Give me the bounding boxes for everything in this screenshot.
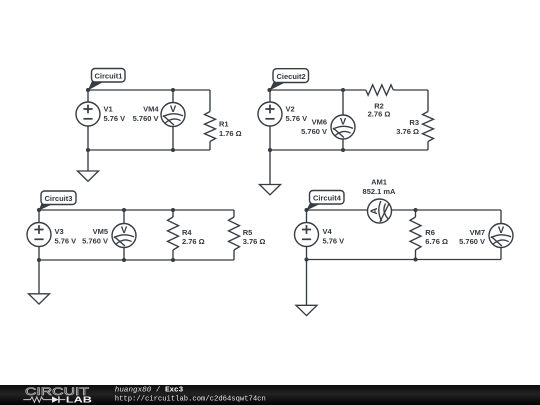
label V1 value	[104, 105, 126, 124]
wire: circuit2 top rail right	[393, 89, 428, 91]
wire: R4 bottom lead	[172, 250, 174, 260]
svg-text:2.76 Ω: 2.76 Ω	[368, 110, 391, 119]
svg-text:5.76 V: 5.76 V	[55, 236, 77, 245]
wire: VM6 bottom lead	[342, 140, 344, 151]
annotation callout Circuit3	[39, 191, 76, 211]
node: VM6 bottom junction	[341, 148, 345, 152]
wire: V3 bottom lead	[38, 247, 40, 261]
label AM1 value	[363, 177, 397, 196]
svg-text:5.76 V: 5.76 V	[104, 114, 126, 123]
node: VM6 top junction	[341, 88, 345, 92]
wire: circuit4 bottom rail	[307, 259, 502, 261]
wire: circuit2 bottom rail	[270, 149, 428, 151]
logo CIRCUIT wordmark	[25, 386, 89, 398]
wire: circuit3 ground stem	[38, 260, 40, 294]
resistor R6	[410, 217, 421, 250]
svg-text:3.76 Ω: 3.76 Ω	[243, 237, 266, 246]
wire: VM5 bottom lead	[123, 248, 125, 260]
wire: VM6 top lead	[342, 90, 344, 115]
svg-text:R6: R6	[425, 228, 435, 237]
label VM5 value	[82, 227, 108, 246]
footer bar	[0, 385, 540, 405]
svg-text:3.76 Ω: 3.76 Ω	[396, 127, 419, 136]
svg-text:Ciecuit2: Ciecuit2	[277, 72, 306, 81]
svg-text:5.76 V: 5.76 V	[323, 236, 345, 245]
ground: circuit2	[260, 185, 281, 195]
label R6 value	[425, 228, 448, 246]
label R4 value	[182, 228, 205, 246]
svg-text:5.760 V: 5.760 V	[301, 127, 327, 136]
wire: R6 bottom lead	[415, 250, 417, 260]
resistor R1	[205, 112, 216, 142]
svg-text:V1: V1	[104, 105, 113, 114]
svg-text:V4: V4	[323, 227, 333, 236]
wire: R3 top lead	[427, 90, 429, 112]
label VM4 value	[133, 105, 160, 124]
wire: R5 top lead	[233, 210, 235, 217]
annotation callout Circuit4	[306, 191, 344, 211]
label R2 value	[368, 101, 391, 118]
wire: V1 bottom lead	[87, 126, 89, 150]
svg-text:5.760 V: 5.760 V	[459, 237, 485, 246]
ground: circuit1	[78, 171, 99, 181]
wire: R5 bottom lead	[233, 250, 235, 260]
svg-text:Circuit1: Circuit1	[95, 72, 123, 81]
voltmeter VM4	[161, 103, 185, 127]
wire: circuit4 top rail right	[392, 209, 501, 211]
resistor R5	[229, 217, 240, 250]
wire: circuit2 ground stem	[269, 150, 271, 185]
wire: circuit1 ground stem	[87, 150, 89, 171]
node: R6 bottom junction	[413, 257, 417, 261]
svg-text:V: V	[498, 225, 505, 236]
wire: VM4 top lead	[172, 90, 174, 103]
svg-text:huangx80 / Exc3: huangx80 / Exc3	[115, 386, 184, 394]
node: V1 bottom junction	[86, 148, 90, 152]
ground: circuit3	[29, 294, 50, 304]
label V2 value	[286, 105, 308, 124]
svg-text:A: A	[369, 207, 380, 214]
wire: circuit3 bottom rail	[39, 259, 234, 261]
svg-text:V: V	[121, 225, 128, 236]
svg-text:LAB: LAB	[66, 396, 92, 405]
node: VM5 top junction	[122, 208, 126, 212]
node: VM4 bottom junction	[171, 148, 175, 152]
wire: R3 bottom lead	[427, 142, 429, 151]
svg-text:VM4: VM4	[143, 105, 159, 114]
wire: R1 top lead	[209, 90, 211, 112]
ground: circuit4	[296, 305, 317, 315]
svg-text:V3: V3	[55, 227, 64, 236]
wire: VM7 bottom lead	[500, 248, 502, 260]
svg-text:VM5: VM5	[93, 227, 108, 236]
svg-text:Circuit3: Circuit3	[45, 194, 73, 203]
wire: V2 top lead	[269, 90, 271, 102]
footer url	[115, 396, 266, 404]
svg-text:http://circuitlab.com/c2d64sqw: http://circuitlab.com/c2d64sqwt74cn	[115, 396, 266, 404]
wire: R1 bottom lead	[209, 142, 211, 151]
svg-text:AM1: AM1	[371, 177, 387, 186]
voltmeter VM5	[112, 224, 136, 248]
label R1 value	[219, 120, 242, 138]
wire: circuit3 top rail	[39, 209, 234, 211]
logo LAB wordmark	[66, 396, 92, 405]
svg-text:V2: V2	[286, 105, 295, 114]
logo resistor-diode glyph	[23, 396, 65, 402]
svg-text:5.760 V: 5.760 V	[133, 114, 159, 123]
svg-text:1.76 Ω: 1.76 Ω	[219, 129, 242, 138]
voltage source V3	[27, 223, 51, 247]
wire: R6 top lead	[415, 210, 417, 217]
wire: circuit4 ground stem	[306, 260, 308, 306]
svg-text:5.76 V: 5.76 V	[286, 114, 308, 123]
svg-text:R4: R4	[182, 228, 192, 237]
wire: circuit1 bottom rail	[88, 149, 210, 151]
footer title huangx80 / Exc3	[115, 386, 184, 394]
wire: VM4 bottom lead	[172, 127, 174, 150]
wire: circuit2 top rail left	[270, 89, 366, 91]
svg-text:R1: R1	[219, 120, 229, 129]
node: V2 bottom junction	[268, 148, 272, 152]
wire: circuit1 top rail	[88, 89, 210, 91]
wire: V3 top lead	[38, 210, 40, 223]
svg-text:R3: R3	[409, 118, 419, 127]
svg-text:V: V	[170, 104, 177, 115]
label V3 value	[55, 227, 77, 246]
label V4 value	[323, 227, 345, 246]
voltmeter VM6	[331, 115, 355, 139]
wire: VM7 top lead	[500, 210, 502, 224]
node: R4 top junction	[171, 208, 175, 212]
node: circuit2 top-left junction	[267, 88, 271, 92]
label R3 value	[396, 118, 419, 136]
node: VM5 bottom junction	[122, 258, 126, 262]
svg-text:R5: R5	[243, 228, 253, 237]
node: V3 bottom junction	[37, 258, 41, 262]
label VM6 value	[301, 117, 327, 136]
svg-text:5.760 V: 5.760 V	[82, 236, 108, 245]
node: circuit4 top-left junction	[304, 208, 308, 212]
node: VM4 top junction	[171, 88, 175, 92]
voltage source V2	[258, 102, 282, 126]
resistor R4	[168, 217, 179, 250]
svg-text:VM6: VM6	[312, 117, 327, 126]
voltage source V4	[295, 223, 319, 247]
node: R4 bottom junction	[171, 258, 175, 262]
svg-text:V: V	[340, 116, 347, 127]
svg-text:2.76 Ω: 2.76 Ω	[182, 237, 205, 246]
annotation callout Ciecuit2	[269, 69, 308, 91]
ammeter AM1	[368, 199, 392, 223]
svg-text:852.1 mA: 852.1 mA	[363, 187, 397, 196]
label R5 value	[243, 228, 266, 246]
label VM7 value	[459, 228, 485, 246]
wire: V1 top lead	[87, 90, 89, 102]
node: V4 bottom junction	[304, 257, 308, 261]
voltage source V1	[76, 102, 100, 126]
svg-text:Circuit4: Circuit4	[313, 194, 342, 203]
node: circuit3 top-left junction	[37, 208, 41, 212]
node: circuit1 top-left junction	[86, 88, 90, 92]
resistor R2	[366, 85, 394, 95]
resistor R3	[423, 112, 434, 142]
wire: V2 bottom lead	[269, 126, 271, 150]
annotation callout Circuit1	[88, 69, 125, 91]
wire: V4 top lead	[306, 210, 308, 223]
svg-text:VM7: VM7	[470, 228, 485, 237]
node: R6 top junction	[413, 208, 417, 212]
wire: VM5 top lead	[123, 210, 125, 224]
wire: circuit4 top rail left	[307, 209, 368, 211]
svg-text:6.76 Ω: 6.76 Ω	[425, 237, 448, 246]
wire: V4 bottom lead	[306, 247, 308, 260]
voltmeter VM7	[489, 224, 513, 248]
wire: R4 top lead	[172, 210, 174, 217]
